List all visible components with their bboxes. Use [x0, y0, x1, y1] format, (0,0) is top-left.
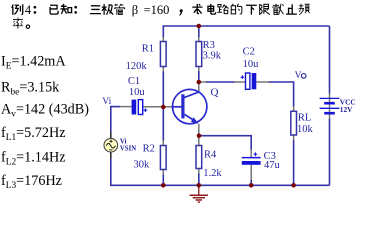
resistor R2: [160, 146, 166, 170]
char 例: [12, 4, 23, 15]
svg-text:Av=142 (43dB): Av=142 (43dB): [1, 102, 89, 120]
pin R2 top: [162, 141, 164, 146]
svg-text:4: 4: [25, 3, 32, 17]
wire R2 bottom to rail: [162, 175, 164, 186]
svg-text:10u: 10u: [129, 87, 146, 98]
svg-text:R1: R1: [142, 44, 154, 55]
node rail C3: [249, 183, 254, 188]
svg-text:10u: 10u: [243, 59, 260, 70]
ideographic full stop: [26, 25, 29, 28]
svg-text:fL2=1.14Hz: fL2=1.14Hz: [1, 149, 66, 167]
wire R1 top: [162, 25, 164, 37]
char 电: [208, 4, 216, 14]
battery VCC: [320, 98, 340, 113]
pin C2 left: [235, 81, 246, 83]
wire Vi stub: [111, 106, 121, 108]
pin R2 bottom: [162, 170, 164, 175]
svg-text:VSIN: VSIN: [120, 145, 136, 152]
node rail R2: [161, 183, 166, 188]
left equations column: [1, 54, 89, 191]
pin R3 bottom: [198, 67, 200, 72]
svg-text:3.9k: 3.9k: [203, 50, 222, 61]
pin base: [165, 106, 172, 108]
svg-text:fL3=176Hz: fL3=176Hz: [1, 173, 62, 191]
node collector: [197, 80, 202, 85]
node top rail / R3: [197, 24, 202, 29]
fullwidth colon: [74, 6, 77, 14]
pin C3 top: [250, 150, 252, 158]
resistor R1: [160, 42, 166, 67]
pin collector: [198, 82, 200, 92]
pin RL top: [293, 107, 295, 112]
wire collector node to C2: [206, 81, 235, 83]
resistor R3: [196, 42, 202, 67]
wire VCC top: [329, 26, 331, 94]
char 三: [90, 6, 101, 14]
pin VSIN bottom: [110, 152, 112, 159]
char 限: [260, 4, 270, 15]
wire R4 bottom to rail: [198, 174, 200, 186]
svg-text:Q: Q: [211, 86, 219, 98]
svg-text:=160: =160: [144, 3, 170, 17]
title line 2: [13, 17, 30, 28]
pin C2 right: [256, 81, 268, 83]
svg-text:C1: C1: [128, 76, 140, 87]
pin C1 right: [143, 106, 162, 108]
fullwidth comma: [179, 9, 182, 16]
wire VCC bottom to rail: [329, 119, 331, 186]
capacitor C3: [242, 152, 261, 164]
char 下: [246, 5, 257, 14]
wire R1 bottom to base node: [162, 72, 164, 108]
svg-text:Vi: Vi: [102, 97, 111, 107]
pin R3 top: [198, 37, 200, 42]
svg-text:C2: C2: [243, 46, 255, 57]
char 路: [217, 5, 228, 14]
node rail RL: [291, 183, 296, 188]
char 知: [60, 4, 71, 14]
wire base node to R2: [162, 107, 164, 141]
pin emitter: [198, 124, 200, 136]
svg-text:12V: 12V: [340, 105, 353, 114]
wire RL bottom to rail: [293, 140, 295, 185]
char 频: [299, 4, 310, 15]
pin C3 bottom: [250, 165, 252, 180]
svg-text:V: V: [295, 71, 302, 81]
pin R1 bottom: [162, 67, 164, 72]
transistor Q: [173, 89, 207, 123]
char 截: [272, 4, 283, 15]
svg-text:R2: R2: [143, 143, 155, 154]
svg-text:β: β: [132, 3, 138, 17]
svg-text:RL: RL: [298, 112, 311, 123]
pin VCC: [329, 94, 331, 119]
wire Vi down to source: [110, 106, 112, 132]
pin VSIN top: [110, 132, 112, 139]
svg-text:IE=1.42mA: IE=1.42mA: [1, 54, 66, 72]
wire top rail: [163, 25, 329, 27]
pin RL bottom: [293, 135, 295, 140]
pin C1 left: [120, 106, 131, 108]
port bubble Vo: [301, 74, 306, 79]
node base: [161, 105, 166, 110]
pin R4 top: [198, 136, 200, 146]
wire C3 bottom to rail: [250, 180, 252, 185]
char 率: [13, 17, 23, 28]
fullwidth colon: [34, 6, 37, 14]
svg-text:47u: 47u: [264, 160, 281, 171]
source VSIN: [104, 138, 118, 152]
char 求: [192, 4, 202, 14]
resistor RL: [291, 111, 297, 135]
svg-text:120k: 120k: [126, 61, 148, 72]
svg-text:10k: 10k: [297, 124, 314, 135]
pin collector to C2: [199, 81, 206, 83]
svg-text:1.2k: 1.2k: [203, 168, 222, 179]
ground: [190, 185, 208, 202]
capacitor C1: [132, 100, 148, 115]
char 的: [231, 4, 242, 14]
wire bottom rail: [110, 184, 330, 186]
svg-text:30k: 30k: [134, 160, 151, 171]
resistor R4: [196, 146, 202, 169]
wire emitter node to C3: [199, 136, 251, 150]
pin R4 bottom: [198, 169, 200, 174]
node emitter: [197, 133, 202, 138]
capacitor C2: [241, 73, 257, 89]
char 止: [286, 4, 297, 14]
title line 1: [12, 3, 310, 17]
wire R3 top: [198, 25, 200, 37]
svg-text:R4: R4: [204, 149, 217, 160]
wire source to bottom rail: [110, 159, 112, 186]
pin R1 top: [162, 37, 164, 42]
char 已: [50, 5, 58, 14]
wire R3 bottom to collector node: [198, 71, 200, 82]
char 管: [115, 4, 125, 15]
char 极: [102, 4, 113, 15]
node rail ground: [197, 183, 202, 188]
svg-text:Rbe=3.15k: Rbe=3.15k: [1, 80, 60, 98]
wire C2 to Vo corner: [269, 82, 294, 107]
svg-text:fL1=5.72Hz: fL1=5.72Hz: [1, 125, 66, 143]
svg-text:Vi: Vi: [120, 138, 127, 145]
